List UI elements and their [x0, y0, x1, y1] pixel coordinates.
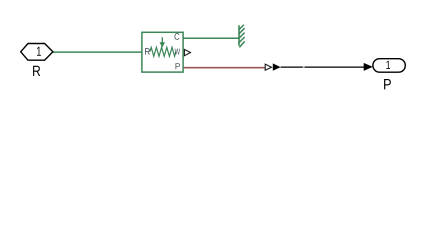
arrowhead at outport — [364, 63, 373, 71]
port label W (block right) — [175, 48, 180, 54]
port label R (block left) — [145, 48, 150, 54]
physical signal wire from port P — [184, 67, 266, 69]
label P (outport name) — [384, 79, 391, 89]
port W physical-signal triangle (unconnected) — [184, 49, 190, 55]
label R (inport name) — [33, 66, 40, 76]
resistor zigzag — [150, 47, 176, 56]
wire from port C to reference — [184, 37, 240, 39]
potentiometer block (variable resistor) — [142, 32, 183, 72]
converter output arrow (filled triangle) — [273, 63, 281, 70]
wire from inport R to block — [53, 51, 143, 53]
wiper arrow — [160, 37, 166, 47]
port label P (block bottom right) — [176, 63, 180, 69]
reference symbol (hatched anchor) — [239, 25, 245, 48]
port label C (block top right) — [175, 33, 180, 40]
PS-Simulink converter (hollow triangle) — [265, 64, 271, 70]
input port 1 (hexagon Inport R) — [21, 44, 53, 61]
signal wire to outport — [281, 66, 364, 68]
output port 1 (Outport P) — [373, 59, 405, 72]
